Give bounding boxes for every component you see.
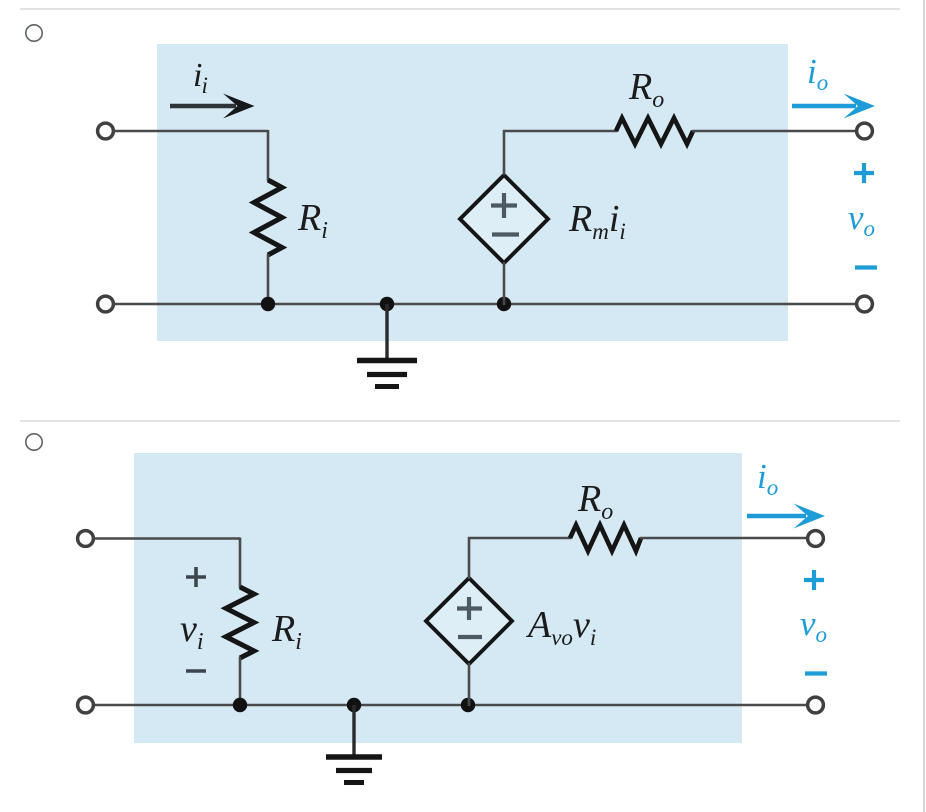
top separator rule <box>20 8 900 10</box>
bottom rail (circuit 1) <box>113 303 857 306</box>
ground (circuit 1) <box>357 304 417 387</box>
junction dot R_i bottom (circuit 1) <box>261 297 275 311</box>
wire source top lead (circuit 1) <box>503 130 506 175</box>
wire R_i bottom lead (circuit 1) <box>267 254 270 305</box>
plus sign inside source (circuit 2) <box>457 597 482 620</box>
resistor R_i (circuit 1) <box>254 180 282 255</box>
dependent source A_vo v_i diamond (circuit 2) <box>426 578 512 664</box>
svg-text:vo: vo <box>800 604 827 647</box>
label R_o (circuit 1) <box>628 66 664 113</box>
svg-text:vo: vo <box>848 198 875 241</box>
output terminal bottom (circuit 1) <box>857 296 873 312</box>
label R_m i_i (circuit 1) <box>568 198 626 244</box>
output terminal top (circuit 2) <box>808 531 824 547</box>
wire input top (circuit 1) <box>113 130 268 133</box>
ground (circuit 2) <box>326 705 382 783</box>
wire input top (circuit 2) <box>93 537 240 540</box>
plus sign inside source (circuit 1) <box>491 193 517 218</box>
wire source to R_o (circuit 2) <box>468 537 571 540</box>
output current arrow i_o (circuit 1) <box>792 94 875 119</box>
minus sign v_i (circuit 2) <box>186 669 206 673</box>
amplifier box (circuit 2) <box>134 453 742 743</box>
wire source bottom lead (circuit 2) <box>468 663 471 706</box>
wire source to R_o (circuit 1) <box>503 130 617 133</box>
plus sign v_i (circuit 2) <box>186 567 206 587</box>
wire R_i top lead (circuit 1) <box>267 130 270 181</box>
junction dot source bottom (circuit 2) <box>461 698 475 712</box>
label R_i (circuit 1) <box>297 197 328 244</box>
label A_vo v_i (circuit 2) <box>525 604 596 650</box>
minus sign v_o (circuit 2) <box>805 671 827 675</box>
svg-text:io: io <box>757 457 778 500</box>
minus sign inside source (circuit 1) <box>492 232 519 236</box>
middle separator rule <box>20 420 900 422</box>
radio option A <box>26 25 42 41</box>
junction dot ground (circuit 2) <box>347 698 361 712</box>
resistor R_i (circuit 2) <box>226 587 254 658</box>
radio option B <box>26 434 42 450</box>
svg-text:io: io <box>807 52 828 95</box>
junction dot source bottom (circuit 1) <box>497 297 511 311</box>
input terminal bottom (circuit 2) <box>78 697 94 713</box>
label R_i (circuit 2) <box>271 608 302 655</box>
input terminal top (circuit 1) <box>98 123 114 139</box>
amplifier box (circuit 1) <box>157 44 788 341</box>
output terminal bottom (circuit 2) <box>808 697 824 713</box>
input terminal top (circuit 2) <box>78 531 94 547</box>
label v_o (circuit 2) <box>800 604 827 647</box>
resistor R_o (circuit 1) <box>616 118 693 144</box>
label i_o (circuit 2) <box>757 457 778 500</box>
input terminal bottom (circuit 1) <box>98 296 114 312</box>
plus sign v_o (circuit 1) <box>854 163 874 183</box>
wire R_i top lead (circuit 2) <box>239 538 242 589</box>
wire R_o to output (circuit 2) <box>640 537 808 540</box>
label v_i (circuit 2) <box>180 608 204 655</box>
junction dot ground (circuit 1) <box>380 297 394 311</box>
label v_o (circuit 1) <box>848 198 875 241</box>
plus sign v_o (circuit 2) <box>804 570 824 590</box>
right page border <box>923 0 925 812</box>
label R_o (circuit 2) <box>577 478 613 525</box>
dependent source R_m i_i diamond (circuit 1) <box>460 175 548 263</box>
output current arrow i_o (circuit 2) <box>747 504 825 529</box>
input current arrow i_i <box>170 94 255 119</box>
minus sign inside source (circuit 2) <box>458 635 482 639</box>
wire source top lead (circuit 2) <box>468 537 471 579</box>
label i_i <box>193 57 208 98</box>
resistor R_o (circuit 2) <box>570 525 641 551</box>
wire R_i bottom lead (circuit 2) <box>239 657 242 706</box>
wire source bottom lead (circuit 1) <box>503 262 506 305</box>
output terminal top (circuit 1) <box>857 123 873 139</box>
junction dot R_i bottom (circuit 2) <box>233 698 247 712</box>
wire R_o to output (circuit 1) <box>692 130 857 133</box>
bottom rail (circuit 2) <box>93 704 808 707</box>
minus sign v_o (circuit 1) <box>855 265 877 269</box>
label i_o (circuit 1) <box>807 52 828 95</box>
